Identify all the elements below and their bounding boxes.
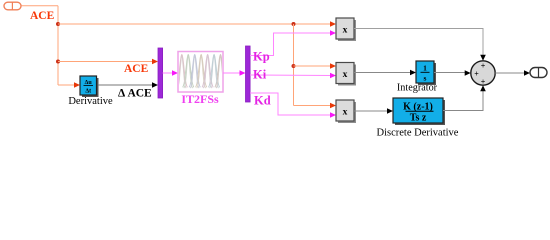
block Derivative <box>80 76 99 97</box>
wire ACE top run to product P1 <box>58 23 333 25</box>
svg-text:Derivative: Derivative <box>68 96 113 107</box>
arrow into discrete derivative <box>387 108 393 114</box>
arrow into IT2FSs <box>172 70 178 76</box>
arrow into P1 input 2 <box>330 30 336 36</box>
wire P3 out to discrete derivative <box>354 110 389 112</box>
wire Ki demux out to P2 input 2 <box>250 74 332 77</box>
wire vertical trunk x58 <box>57 6 59 85</box>
svg-text:Integrator: Integrator <box>397 83 438 94</box>
block Mux <box>158 48 163 98</box>
wire feed to Derivative <box>58 84 76 86</box>
node junction at x293.5 row2 <box>292 64 296 68</box>
svg-text:IT2FSs: IT2FSs <box>181 92 219 106</box>
node ACE junction top <box>56 22 60 26</box>
wire ACE to mux <box>58 61 154 63</box>
wire to product P3 first input <box>294 105 334 107</box>
arrow into integrator <box>410 70 416 76</box>
wire Kp demux out to P1 input 2 <box>250 33 332 56</box>
arrow into P2 input 2 <box>330 73 336 79</box>
inport 1 (ACE input port) <box>4 2 21 10</box>
arrow into outport <box>524 70 530 76</box>
arrow into P1 input 1 <box>330 21 336 27</box>
arrow into sum bottom <box>480 85 486 91</box>
svg-text:+: + <box>481 78 486 87</box>
arrow into P3 input 1 <box>330 103 336 109</box>
svg-text:1: 1 <box>423 64 427 73</box>
wire mux to IT2FSs <box>163 72 174 74</box>
svg-text:Δt: Δt <box>85 89 91 95</box>
arrow into demux <box>240 70 246 76</box>
svg-text:x: x <box>343 70 348 80</box>
svg-text:Kp: Kp <box>253 50 270 64</box>
arrow into sum top <box>480 55 486 61</box>
arrow into Derivative <box>74 82 80 88</box>
svg-text:s: s <box>424 74 427 83</box>
svg-text:ACE: ACE <box>30 10 55 22</box>
wire sum to outport <box>495 72 526 74</box>
svg-text:x: x <box>343 26 348 36</box>
wire discrete derivative to sum bottom <box>443 90 483 111</box>
svg-text:Δ ACE: Δ ACE <box>118 88 152 100</box>
arrow into mux input 2 <box>152 82 158 88</box>
svg-text:+: + <box>481 62 486 71</box>
svg-text:ACE: ACE <box>124 63 149 75</box>
block product P1 <box>336 18 356 41</box>
block product P2 <box>336 63 356 86</box>
svg-text:Discrete Derivative: Discrete Derivative <box>377 128 459 139</box>
svg-text:Kd: Kd <box>254 94 271 108</box>
arrow into P3 input 2 <box>330 112 336 118</box>
node ACE junction mid <box>56 60 60 64</box>
block Demux <box>246 46 251 102</box>
block IT2FSs <box>176 52 226 93</box>
arrow into P2 input 1 <box>330 63 336 69</box>
block product P3 <box>336 100 356 123</box>
node junction at x293.5 top <box>292 22 296 26</box>
svg-text:x: x <box>343 108 348 118</box>
wire to product P2 first input <box>294 65 334 67</box>
outport 1 <box>530 68 547 78</box>
wire Derivative to mux <box>98 84 154 86</box>
block Discrete Derivative <box>393 98 445 125</box>
svg-text:Ts z: Ts z <box>410 113 427 124</box>
svg-text:Ki: Ki <box>253 68 267 82</box>
block Integrator <box>416 61 436 85</box>
block Sum <box>471 61 495 87</box>
arrow into mux input 1 <box>152 59 158 65</box>
arrow into sum left <box>465 70 471 76</box>
svg-text:+: + <box>474 70 479 79</box>
wire integrator to sum left <box>434 72 467 74</box>
wire P2 out to integrator <box>354 72 412 74</box>
wire IT2FSs to demux <box>223 72 242 74</box>
wire P1 out to sum top <box>354 29 483 58</box>
wire inport to corner <box>22 5 59 7</box>
wire vertical drop x293.5 <box>293 24 295 106</box>
wire Kd demux out to P3 input 2 <box>250 93 332 115</box>
